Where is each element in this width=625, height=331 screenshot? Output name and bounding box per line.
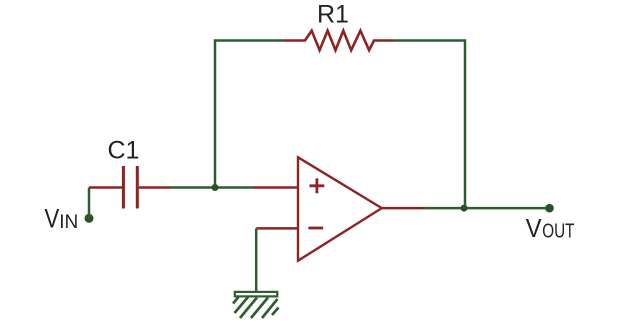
ground <box>233 292 279 318</box>
wire to ground (green) <box>255 228 258 291</box>
wire feedback top right (green) <box>394 41 465 209</box>
wire op-amp + input pin (maroon) <box>253 186 298 189</box>
wire VIN vertical (green) <box>88 188 91 219</box>
op-amp U1 <box>298 157 382 260</box>
svg-text:VIN: VIN <box>45 204 79 234</box>
op-amp minus marking <box>308 227 323 230</box>
wire feedback top left (green) <box>215 41 285 188</box>
capacitor C1 <box>89 166 171 209</box>
wire cap to noninverting input (green) <box>171 186 253 189</box>
wire op-amp - input pin (maroon) <box>256 227 298 230</box>
node VOUT terminal dot <box>545 204 554 213</box>
wire op-amp output pin (maroon) <box>382 207 425 210</box>
op-amp plus marking <box>310 178 325 193</box>
node VIN terminal dot <box>85 214 94 223</box>
svg-text:VOUT: VOUT <box>526 213 575 243</box>
resistor R1 <box>285 31 395 51</box>
node junction A dot <box>212 184 219 191</box>
wire output (green) <box>425 207 550 210</box>
svg-text:C1: C1 <box>108 136 140 164</box>
svg-text:R1: R1 <box>317 1 349 29</box>
node output junction dot <box>461 205 468 212</box>
